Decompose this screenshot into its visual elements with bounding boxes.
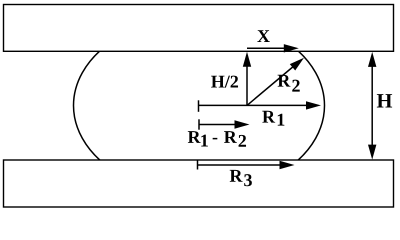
arrow R1 - R2 with start tick <box>199 119 250 129</box>
arrow R2 <box>247 58 304 106</box>
label H/2 <box>211 76 238 88</box>
label H <box>377 94 392 107</box>
top plate <box>4 5 394 52</box>
arrow H/2 <box>243 52 251 106</box>
label R1 - R2 <box>188 131 246 147</box>
arrow R3 with start tick <box>198 161 295 170</box>
barrel ellipse (clipped between plates) <box>74 17 325 195</box>
arrow X <box>247 44 299 52</box>
label X <box>257 30 269 42</box>
bottom plate <box>4 160 394 207</box>
arrow R1 with start tick <box>199 100 322 112</box>
label R2 <box>278 75 300 92</box>
label R3 <box>230 170 252 186</box>
label R1 <box>262 111 284 126</box>
dimension arrow H (double headed) <box>368 52 376 160</box>
